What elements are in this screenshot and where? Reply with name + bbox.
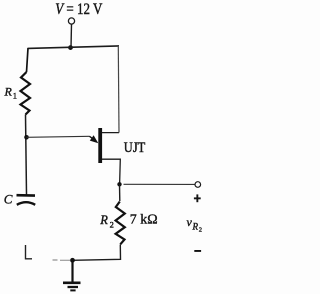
junction dot output node xyxy=(117,182,121,186)
ground bar 1 xyxy=(63,281,81,284)
label V = 12 V xyxy=(55,1,103,18)
terminal supply xyxy=(68,18,74,24)
wire output tap xyxy=(124,183,195,185)
wire bottom faint segment b xyxy=(60,259,70,261)
wire base2 lead xyxy=(102,132,119,134)
wire R2 bottom lead xyxy=(73,245,121,261)
terminal output xyxy=(195,182,201,188)
resistor R1 xyxy=(21,72,31,115)
junction dot ground node xyxy=(70,258,75,263)
wire base1 lead xyxy=(102,159,121,184)
label R2 xyxy=(99,213,114,230)
wire right branch vertical xyxy=(117,47,120,133)
transistor UJT emitter arrow xyxy=(90,135,99,143)
wire bottom faint segment a xyxy=(53,259,58,261)
wire left branch middle xyxy=(26,115,27,195)
svg-text:2: 2 xyxy=(110,220,114,230)
svg-text:2: 2 xyxy=(199,227,202,234)
svg-text:UJT: UJT xyxy=(124,139,146,155)
wire left branch upper xyxy=(27,48,29,72)
ground stem xyxy=(71,260,73,282)
svg-text:R: R xyxy=(192,222,199,232)
resistor R2 xyxy=(116,202,125,245)
capacitor C bottom plate xyxy=(17,202,35,205)
capacitor C top plate xyxy=(17,194,36,197)
svg-text:1: 1 xyxy=(13,91,17,101)
label plus xyxy=(194,194,201,202)
wire output node to R2 xyxy=(119,184,121,201)
svg-text:R: R xyxy=(4,85,13,99)
transistor UJT bar xyxy=(98,128,102,163)
label minus xyxy=(194,250,201,252)
svg-text:R: R xyxy=(99,213,108,227)
label R1 xyxy=(4,85,18,101)
wire emitter horizontal xyxy=(27,136,90,137)
wire top rail xyxy=(28,46,120,49)
ground bar 2 xyxy=(68,286,79,288)
label vR2 xyxy=(187,215,203,234)
svg-text:V = 12 V: V = 12 V xyxy=(55,1,103,18)
junction dot supply node xyxy=(68,45,73,50)
wire supply stem xyxy=(70,24,73,47)
svg-text:7 kΩ: 7 kΩ xyxy=(130,213,158,228)
ground bar 3 xyxy=(70,289,75,291)
svg-text:C: C xyxy=(4,192,13,207)
junction dot emitter node xyxy=(24,135,29,140)
wire bottom-left stub xyxy=(26,245,33,259)
